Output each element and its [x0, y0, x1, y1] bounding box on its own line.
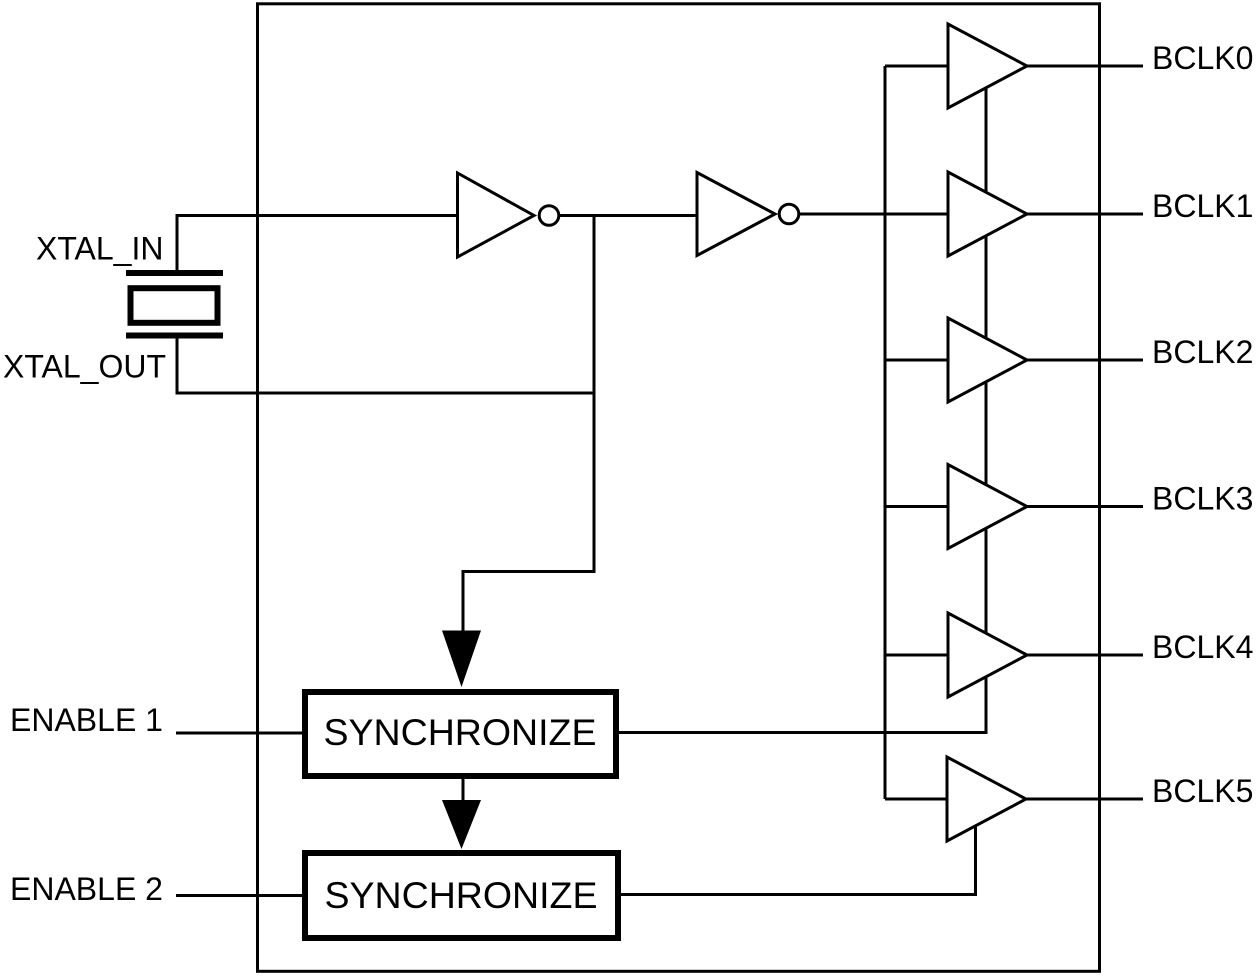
block SYNCHRONIZE 2 — [305, 853, 618, 938]
wire: XTAL_OUT net / feedback — [177, 337, 594, 394]
svg-text:XTAL_IN: XTAL_IN — [36, 231, 163, 267]
svg-text:SYNCHRONIZE: SYNCHRONIZE — [325, 874, 598, 916]
svg-text:BCLK2: BCLK2 — [1152, 334, 1253, 370]
wire: arrow stem SYNC1 to SYNC2 — [462, 779, 465, 805]
svg-text:SYNCHRONIZE: SYNCHRONIZE — [324, 711, 597, 753]
arrowhead into SYNCHRONIZE 1 — [442, 631, 481, 688]
wire: ENABLE 1 input — [176, 732, 305, 735]
wire: stub to BCLK0 buffer — [885, 65, 948, 68]
svg-text:ENABLE 1: ENABLE 1 — [10, 702, 163, 738]
buffer A5 (BCLK5) — [947, 757, 1026, 841]
buffer A4 (BCLK4) — [948, 613, 1027, 697]
svg-text:BCLK1: BCLK1 — [1152, 188, 1253, 224]
crystal Y1 top plate — [126, 270, 223, 276]
wire: feedback vertical from node at x=594 down to synchronize arrow — [463, 216, 594, 635]
wire: BCLK1 output — [1027, 213, 1143, 216]
buffer A2 (BCLK2) — [948, 318, 1027, 402]
buffer A3 (BCLK3) — [948, 465, 1027, 549]
wire: stub to BCLK3 buffer — [885, 505, 948, 508]
wire: ENABLE 2 input — [176, 894, 305, 897]
block boundary — [258, 4, 1100, 972]
wire: BCLK5 output — [1026, 798, 1143, 801]
svg-text:BCLK5: BCLK5 — [1152, 773, 1253, 809]
wire: BCLK0 output — [1027, 65, 1143, 68]
wire: BCLK2 output — [1027, 359, 1143, 362]
wire: SYNCHRONIZE 1 enable output net (to buffer column) — [619, 88, 986, 733]
crystal Y1 body — [131, 288, 218, 323]
inverter U1 bubble — [539, 206, 559, 226]
inverter U1 — [458, 173, 535, 257]
svg-text:ENABLE 2: ENABLE 2 — [10, 871, 163, 907]
wire: clock distribution bus — [884, 66, 887, 799]
arrowhead into SYNCHRONIZE 2 — [442, 800, 481, 849]
block SYNCHRONIZE 1 — [305, 692, 616, 776]
wire: U1 output to U2 input — [560, 214, 698, 217]
wire: SYNCHRONIZE 2 enable output net (to BCLK5 buffer) — [621, 822, 976, 895]
buffer A1 (BCLK1) — [948, 172, 1027, 256]
wire: BCLK4 output — [1027, 654, 1143, 657]
wire: stub to BCLK2 buffer — [885, 359, 948, 362]
buffer A0 (BCLK0) — [948, 24, 1027, 108]
svg-text:BCLK3: BCLK3 — [1152, 481, 1253, 517]
crystal Y1 bottom plate — [126, 333, 223, 339]
inverter U2 — [697, 173, 775, 256]
wire: U2 output to BCLK1 buffer input (clock net) — [800, 213, 949, 216]
wire: stub to BCLK5 buffer — [885, 798, 947, 801]
svg-text:BCLK0: BCLK0 — [1152, 40, 1253, 76]
wire: BCLK3 output — [1027, 505, 1143, 508]
wire: XTAL_IN net — [177, 216, 458, 273]
svg-text:XTAL_OUT: XTAL_OUT — [3, 349, 166, 385]
inverter U2 bubble — [779, 204, 799, 224]
svg-text:BCLK4: BCLK4 — [1152, 629, 1253, 665]
wire: stub to BCLK4 buffer — [885, 654, 948, 657]
